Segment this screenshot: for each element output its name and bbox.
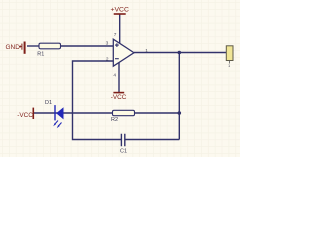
svg-text:R2: R2 xyxy=(111,117,118,123)
svg-text:GND: GND xyxy=(6,44,21,51)
svg-text:1: 1 xyxy=(145,48,148,54)
svg-text:3: 3 xyxy=(106,40,109,46)
svg-text:D1: D1 xyxy=(45,100,52,106)
svg-text:C1: C1 xyxy=(120,149,127,155)
svg-text:R1: R1 xyxy=(37,52,44,58)
svg-text:+VCC: +VCC xyxy=(111,7,129,14)
svg-text:7: 7 xyxy=(114,32,117,38)
svg-text:-VCC: -VCC xyxy=(111,94,127,101)
svg-text:-VCC: -VCC xyxy=(17,112,33,119)
svg-text:2: 2 xyxy=(106,56,109,62)
svg-text:4: 4 xyxy=(113,73,116,79)
